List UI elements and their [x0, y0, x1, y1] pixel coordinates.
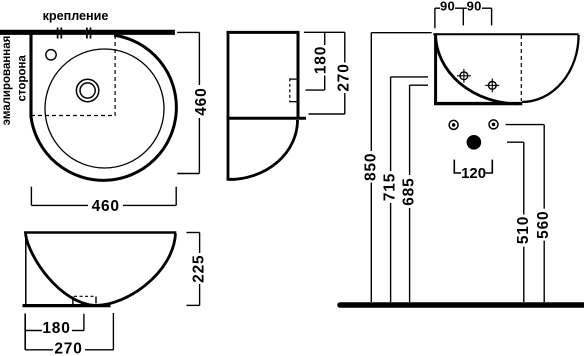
dim 460 bottom: left tick	[30, 187, 32, 206]
dim 460 bottom: line	[31, 204, 88, 206]
dim 180 side: foot	[305, 89, 324, 91]
dim 90-90: left tick	[434, 8, 436, 28]
elevation bottom line	[23, 304, 111, 307]
svg-text:510: 510	[515, 216, 532, 244]
wall line	[0, 30, 175, 35]
side view left edge	[227, 31, 230, 180]
svg-text:460: 460	[193, 87, 210, 115]
dim 225: vertical	[199, 233, 201, 254]
dim 560: horizontal	[506, 124, 545, 126]
dim 685: horizontal	[410, 84, 428, 86]
side view top line	[227, 31, 300, 34]
elevation left edge	[25, 233, 27, 306]
dim 90-90: right tick	[491, 8, 493, 25]
elevation bowl arc	[26, 234, 176, 306]
svg-text:460: 460	[92, 198, 120, 215]
dim 90-90: middle tick	[462, 8, 464, 25]
side view bottom stub	[227, 178, 236, 181]
dim 715: horizontal	[391, 76, 428, 78]
drain plan outer	[76, 79, 98, 101]
dim 850: vertical	[370, 33, 372, 151]
side view bowl arc	[229, 120, 298, 180]
left wall edge of sink	[29, 33, 32, 118]
svg-text:120: 120	[461, 165, 486, 182]
dim 270 bottom: line	[25, 349, 53, 351]
dim 560: vertical	[543, 125, 545, 209]
elevation drain tick left	[72, 297, 74, 306]
dim 460 right: line	[198, 32, 200, 85]
dim 270 side: vertical	[344, 32, 346, 62]
dim 225: bottom tick	[187, 304, 200, 306]
svg-text:225: 225	[191, 255, 208, 283]
svg-text:850: 850	[362, 153, 379, 181]
dim 180 bottom: right tick	[83, 314, 85, 331]
elevation drain dashed top	[74, 295, 96, 297]
dim 510: vertical	[523, 142, 525, 214]
dim 270 bottom: left tick shared	[24, 314, 26, 350]
dim 120: left bracket	[454, 160, 461, 173]
dim 225: top tick	[187, 232, 200, 234]
dim 270 bottom: right tick	[112, 313, 114, 350]
front left edge	[434, 33, 437, 104]
dim 460 bottom: right tick	[175, 187, 177, 206]
svg-text:эмалированная: эмалированная	[1, 36, 13, 126]
side view middle line	[227, 117, 306, 120]
svg-text:90: 90	[440, 0, 455, 13]
drain plan inner	[80, 83, 95, 98]
dim 180 bottom: line	[25, 330, 42, 332]
elevation top line	[24, 231, 176, 233]
svg-text:560: 560	[535, 211, 552, 239]
front right rim arc	[522, 35, 579, 102]
drain outlet filled	[467, 135, 482, 150]
svg-text:крепление: крепление	[43, 9, 109, 23]
dim 460 right: top tick	[177, 31, 199, 33]
dim 510: horizontal	[507, 141, 524, 143]
front dashed corner line	[520, 35, 522, 101]
front top line	[433, 33, 578, 35]
inner bowl circle	[45, 49, 164, 168]
dim 685: vertical	[409, 85, 411, 175]
dim 120: right bracket	[486, 160, 493, 173]
dim 180 side: vertical	[324, 32, 326, 45]
faucet hole 1 crosshair	[457, 69, 471, 83]
dashed counter line horizontal	[31, 115, 116, 117]
dashed counter line vertical	[114, 35, 116, 116]
dim 90-90: line segments	[435, 7, 440, 9]
dim 270 side: foot	[309, 113, 345, 115]
svg-text:сторона: сторона	[17, 55, 29, 102]
mounting hole left	[449, 120, 458, 129]
mounting tick 2b	[90, 28, 92, 39]
svg-text:715: 715	[382, 173, 399, 201]
front bottom line	[434, 102, 522, 105]
dim 715: vertical	[390, 77, 392, 171]
svg-text:180: 180	[313, 46, 330, 74]
elevation drain tick right	[95, 297, 97, 304]
floor line	[340, 302, 584, 308]
mounting tick 1b	[60, 28, 62, 39]
side drain tab bottom	[290, 101, 298, 103]
side view right edge	[297, 31, 300, 120]
mounting tick 2a	[86, 28, 88, 39]
mounting hole right	[489, 120, 498, 129]
faucet hole plan	[46, 50, 56, 60]
side drain tab dashed vertical	[289, 78, 291, 102]
svg-text:90: 90	[467, 0, 482, 13]
mounting tick 1a	[57, 28, 59, 39]
svg-text:685: 685	[401, 177, 418, 205]
svg-text:270: 270	[54, 340, 82, 356]
ext 850	[371, 32, 431, 34]
faucet hole 2 crosshair	[485, 78, 499, 92]
outer rim arc	[31, 35, 176, 180]
front bowl arc	[436, 34, 519, 104]
side drain tab top	[290, 78, 298, 80]
dim 460 right: bottom tick	[177, 173, 199, 175]
svg-text:180: 180	[42, 320, 70, 337]
ext line top for 180/270	[304, 31, 345, 33]
svg-text:270: 270	[335, 63, 352, 91]
